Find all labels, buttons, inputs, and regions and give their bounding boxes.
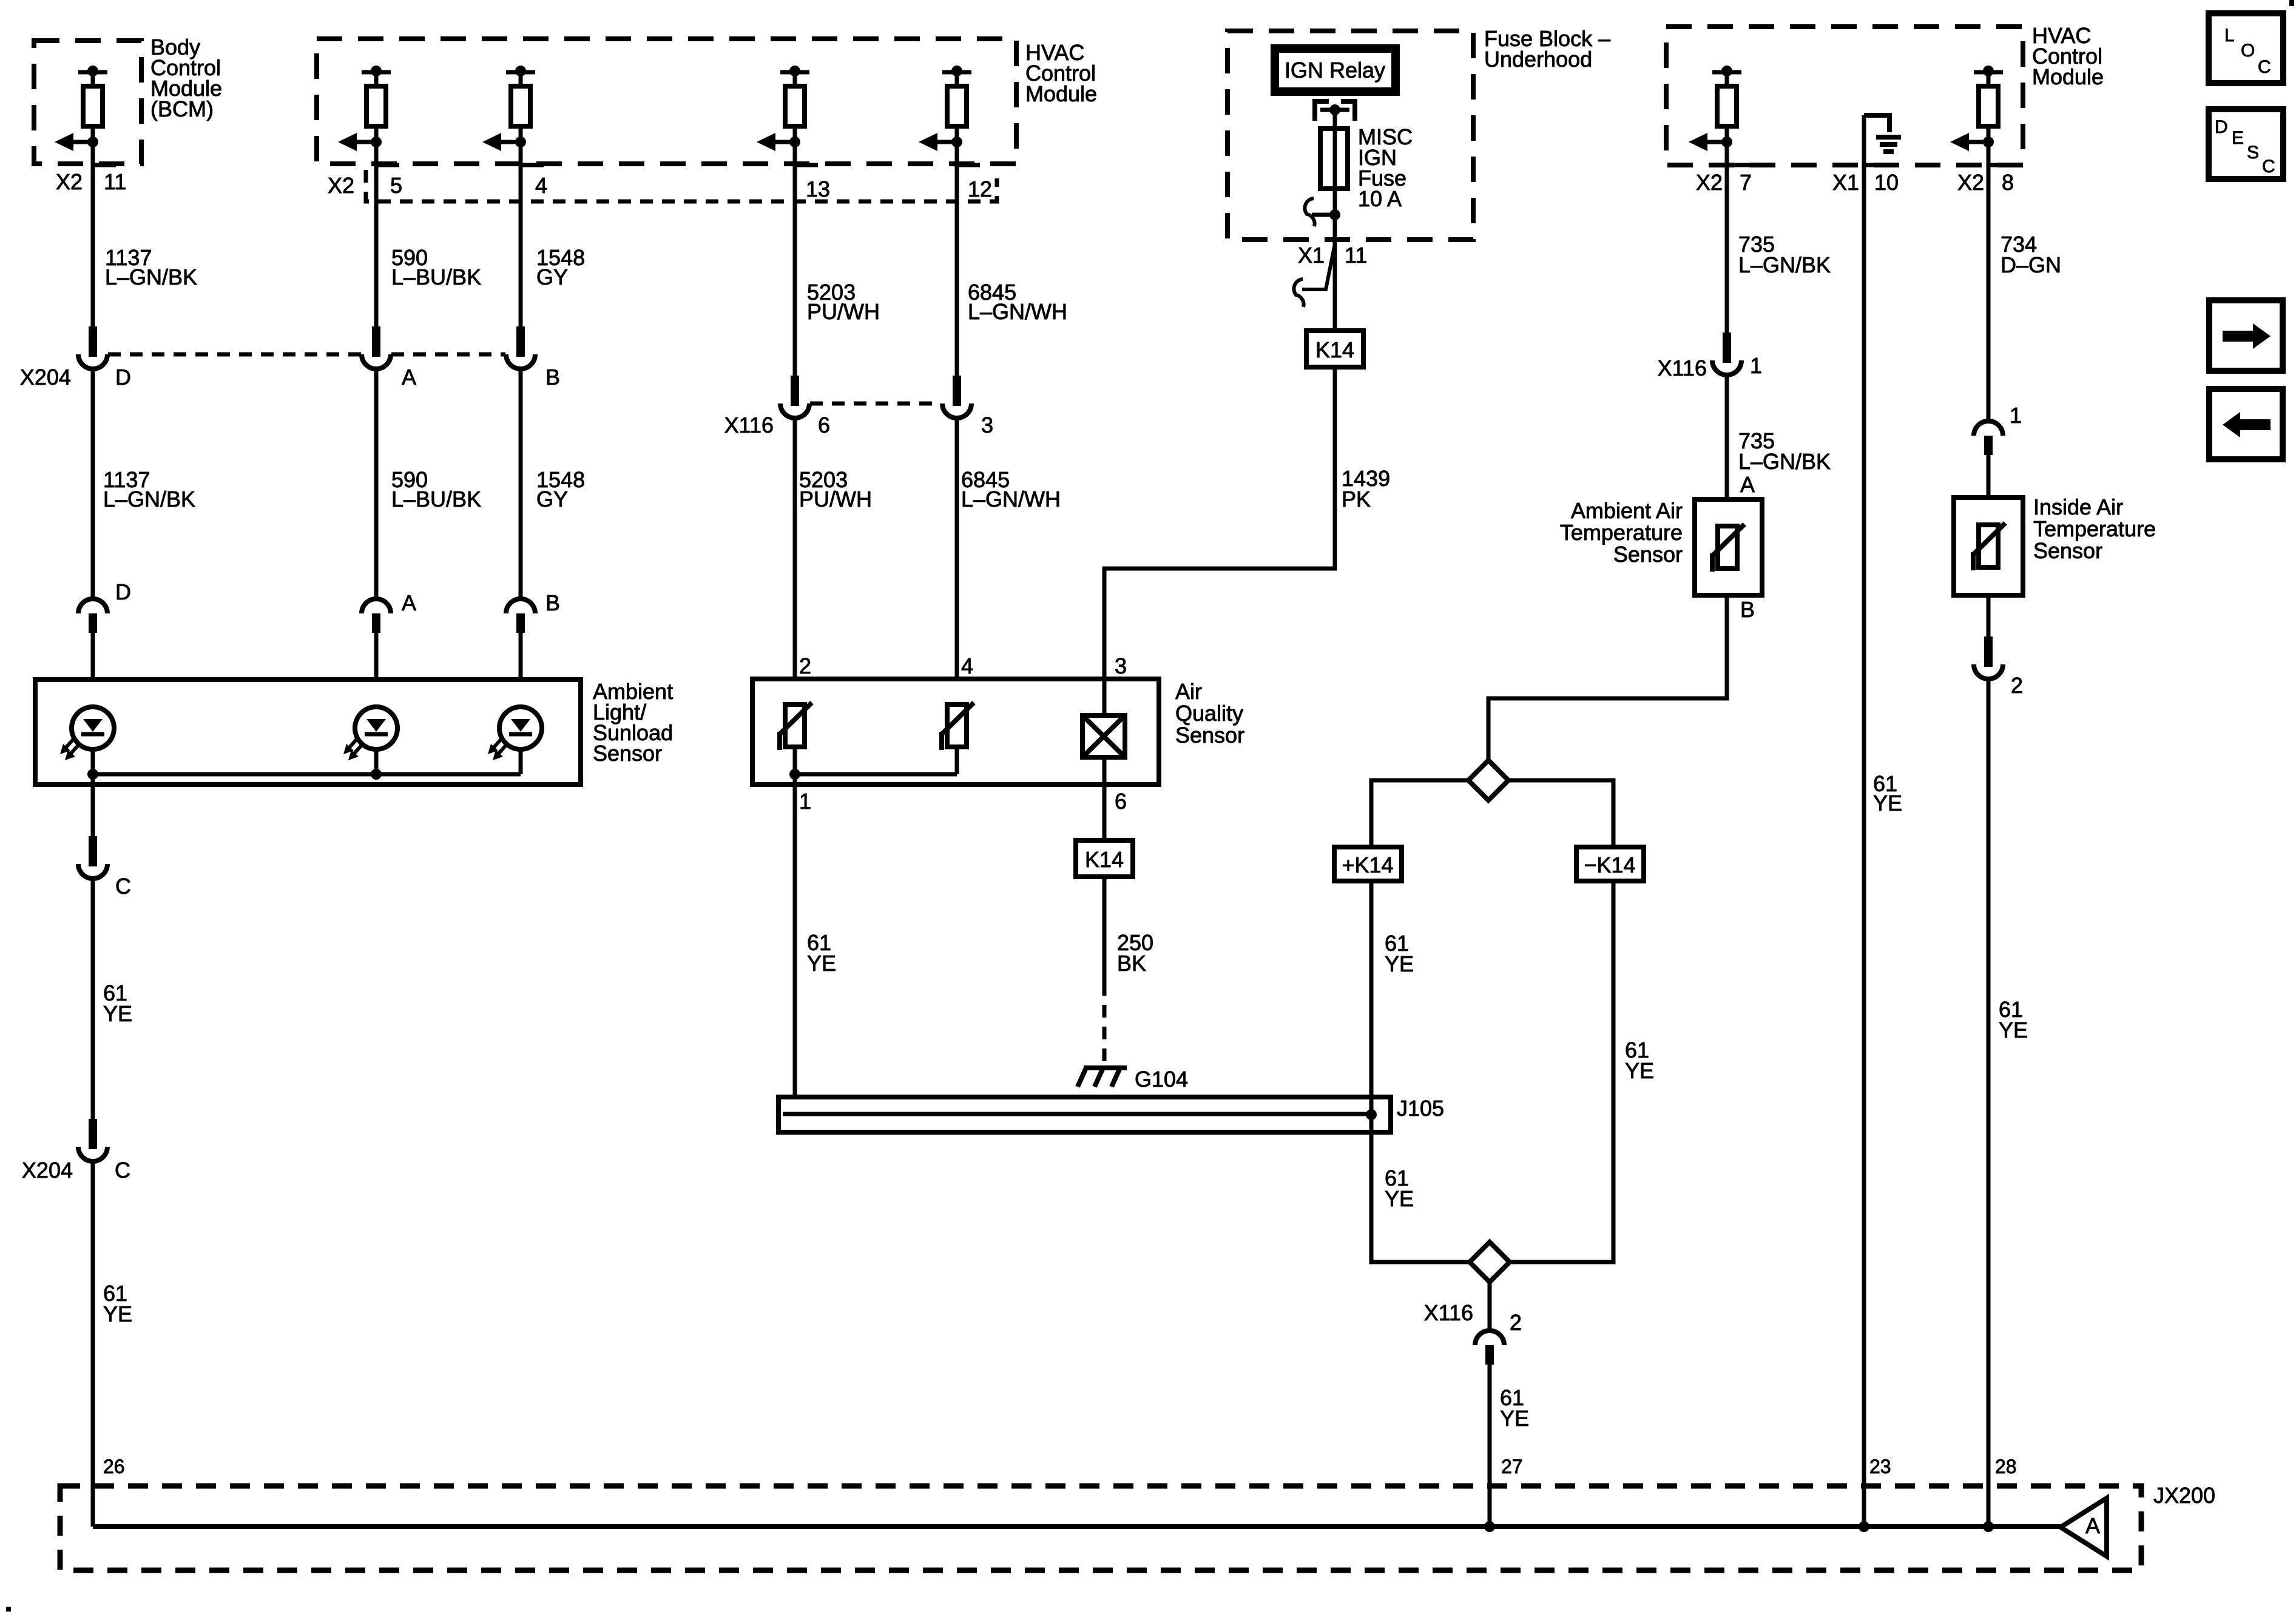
svg-text:Sensor: Sensor [593,741,662,766]
svg-text:YE: YE [1625,1058,1654,1083]
svg-text:YE: YE [1873,791,1902,815]
fuse: MISC IGN Fuse 10A [1320,129,1348,189]
wire: X204-C down to JX200 bus [91,1161,95,1527]
svg-text:4: 4 [535,173,547,198]
thermistor IAT [1973,523,2005,570]
label: wire 735 L-GN/BK (lower) [1738,428,1831,474]
nav box DESC [2209,109,2283,179]
wire: HVAC 13 down to X116-6 [793,142,797,389]
svg-text:23: 23 [1869,1456,1891,1477]
wire: IAT out to pin2 [1987,595,1991,651]
relay output terminal brackets [1315,101,1355,121]
wire: relay to fuse [1333,110,1337,129]
svg-text:(BCM): (BCM) [150,96,214,121]
svg-text:J105: J105 [1397,1096,1444,1121]
wire: BCM X2-11 down to X204-D [91,142,95,340]
svg-text:BK: BK [1117,951,1146,976]
svg-text:K14: K14 [1085,847,1124,872]
connector X116-1 (pin/cup) [1712,333,1741,375]
nav box arrow left [2209,389,2283,459]
svg-text:7: 7 [1740,170,1752,195]
node: bus junction 27 [1484,1521,1495,1532]
svg-text:27: 27 [1501,1456,1523,1477]
wire: sensor common bus [93,772,521,777]
wire: C to X204-C (61 YE) [91,879,95,1133]
wire: HVAC 12 down to X116-3 [955,142,959,389]
svg-text:2: 2 [799,653,811,678]
svg-text:C: C [2262,157,2275,177]
node: junction D-common [87,769,98,780]
net marker A (triangle) [2061,1498,2107,1556]
module box: HVAC Control Module (left) [317,39,1016,164]
relay contact box +K14 [1334,847,1402,881]
wire: 250 BK from K14 [1102,877,1107,983]
svg-text:X116: X116 [1658,356,1707,380]
label: Ambient Air Temperature Sensor [1560,498,1683,567]
resistor: HVAC pin X2-4 [482,66,535,151]
svg-text:28: 28 [1995,1456,2017,1477]
label: HVAC Control Module (right) [2032,23,2104,89]
svg-text:X2: X2 [1957,170,1984,195]
svg-text:L–GN/BK: L–GN/BK [103,487,195,511]
resistor: HVAC pin X2-7 [1689,66,1741,151]
connector X204-C (pin/cup) [78,1119,107,1161]
module box: Fuse Block - Underhood [1227,31,1473,240]
svg-text:11: 11 [1345,243,1367,268]
svg-text:C: C [2258,57,2271,77]
wire: +K14 down through J105 to lower diamond [1371,881,1470,1262]
svg-text:3: 3 [981,413,993,437]
wire: photodiode D to common [91,749,95,774]
wire: X2-8 down to IAT-1 [1987,142,1991,421]
wire: photodiode B to common [519,749,523,774]
label: wire 734 D-GN [2001,232,2061,277]
connector X116-2 (dome/pin) [1475,1331,1504,1365]
thermistor AQ-2 (pin 4) [942,703,974,750]
connector IAT-2 (pin/cup) [1974,636,2003,679]
relay contact box -K14 [1576,847,1644,881]
pin tick X2-8 [1988,163,2011,167]
label: wire 1137 L-GN/BK (upper) [105,245,197,289]
connector X2 outline (dashed) [366,170,997,201]
svg-text:YE: YE [1500,1406,1529,1431]
connector line X204 (dashed) [108,353,505,357]
wire: 250 BK dashed to G104 [1102,983,1107,1065]
wire: IAT-2 61 YE down to bus [1987,679,1991,1527]
junction diamond (upper) [1468,760,1508,800]
label: wire 1137 L-GN/BK (lower) [103,467,195,511]
svg-text:8: 8 [2002,170,2014,195]
svg-text:Sensor: Sensor [1175,723,1244,748]
label: wire 1439 PK [1342,466,1390,511]
node: bus junction 23 [1859,1521,1869,1532]
connector X204-A (pin/cup) [362,326,391,369]
svg-text:K14: K14 [1315,337,1354,362]
svg-text:YE: YE [103,1001,132,1026]
component box: Inside Air Temperature Sensor [1954,498,2023,595]
label: wire 590 L-BU/BK (upper) [391,245,481,289]
label: HVAC Control Module (left) [1025,40,1097,106]
wire: 1439 PK from K14 to AQ pin3 [1104,367,1335,715]
node: fuse output junction [1329,209,1340,220]
svg-text:X116: X116 [1424,1300,1473,1325]
svg-text:D: D [115,365,131,390]
connector sunload D (dome/pin) [78,599,107,633]
label: wire 250 BK [1117,930,1153,976]
svg-text:L–GN/BK: L–GN/BK [105,265,197,289]
wire: -K14 down to lower diamond [1510,881,1613,1262]
node: J105 junction [1366,1109,1377,1120]
svg-text:E: E [2232,128,2244,148]
label: wire 1548 GY (lower) [536,467,585,511]
page mark (bottom left) [6,1607,11,1612]
connector X116-3 (pin/cup) [942,376,971,418]
wire: sensor C out [91,774,95,839]
label: Inside Air Temperature Sensor [2033,495,2156,563]
svg-text:10 A: 10 A [1358,186,1402,211]
connector X116-6 (pin/cup) [780,376,809,418]
svg-text:PK: PK [1342,487,1371,511]
svg-text:1: 1 [2010,403,2022,428]
connector line X116 (dashed) [810,402,941,406]
svg-text:2: 2 [1510,1310,1522,1335]
svg-text:A: A [402,365,416,390]
wire: X204-B to sunload B [519,369,523,600]
wire: AQ therm1 to common [793,747,797,774]
terminal hook (upper) [1305,198,1314,226]
connector C (pin/cup) [78,836,107,879]
svg-text:X204: X204 [20,365,71,390]
svg-text:X1: X1 [1298,243,1325,268]
svg-text:S: S [2247,143,2259,163]
svg-text:4: 4 [961,653,973,678]
svg-text:−K14: −K14 [1584,852,1635,877]
wire: fuse to X1-11 [1333,189,1337,331]
svg-text:A: A [402,590,416,615]
svg-text:X2: X2 [56,169,83,194]
svg-text:10: 10 [1874,170,1899,195]
wire: X204-A to sunload A [374,369,379,600]
svg-text:L: L [2224,25,2235,46]
module box: Body Control Module (BCM) [34,41,141,164]
label: wire 5203 PU/WH (lower) [799,467,872,511]
svg-text:Underhood: Underhood [1484,47,1592,72]
relay coil box K14 (fuse wire) [1306,331,1363,367]
svg-text:+K14: +K14 [1342,852,1393,877]
heater element X-box (pin 3) [1082,715,1125,757]
svg-text:IGN Relay: IGN Relay [1285,58,1385,83]
svg-text:C: C [115,874,131,899]
photodiode D [60,707,114,760]
wire: AQ pin1 61 YE down to J105 [793,774,797,1114]
svg-text:1: 1 [1750,353,1762,378]
label: wire 61 YE (left lower) [103,1281,132,1326]
svg-text:L–GN/BK: L–GN/BK [1738,449,1831,474]
svg-text:B: B [545,365,560,390]
label: MISC IGN Fuse 10 A [1358,124,1413,211]
component box: Ambient Air Temperature Sensor [1695,499,1762,595]
svg-text:3: 3 [1115,653,1127,678]
svg-text:6: 6 [818,413,830,437]
wire: HVAC X2-4 down to X204-B [519,142,523,340]
connector X204-B (pin/cup) [506,326,535,369]
relay: IGN Relay box [1271,44,1400,96]
svg-text:Module: Module [1025,81,1097,106]
svg-text:D: D [2215,117,2228,137]
label: Ambient Light/Sunload Sensor [593,679,673,766]
svg-text:Module: Module [2032,64,2104,89]
svg-text:L–BU/BK: L–BU/BK [391,265,481,289]
connector sunload B (dome/pin) [506,599,535,633]
svg-text:X204: X204 [22,1158,73,1183]
svg-text:GY: GY [536,487,568,511]
svg-text:L–GN/WH: L–GN/WH [961,487,1061,511]
resistor: BCM internal load (pin X2-11) [55,66,107,151]
pin tick 13 [795,163,818,167]
pin tick X2-4 [521,163,544,167]
thermistor AQ-1 (pin 2) [780,703,812,750]
wire: AQ internal common [795,772,957,777]
svg-text:YE: YE [1999,1018,2028,1042]
wire: B pin into sensor [519,633,523,707]
label: wire 61 YE (AQ pin1) [807,930,836,976]
component box: Air Quality Sensor [752,679,1159,785]
wire: A pin into sensor [374,633,379,707]
nav box arrow right [2209,300,2283,371]
terminal hook (lower) [1294,279,1303,307]
svg-text:Sensor: Sensor [2033,538,2102,563]
component box: Ambient Light/Sunload Sensor [35,680,581,785]
label: wire 61 YE (X116-2) [1500,1385,1529,1431]
resistor: HVAC pin 13 [757,66,809,151]
junction diamond (lower) [1470,1242,1510,1282]
label: Air Quality Sensor [1175,679,1244,748]
svg-text:YE: YE [807,951,836,976]
label: wire 61 YE (+K14 upper) [1385,931,1414,976]
wire: X1-10 ground wire 61 YE down to bus [1862,115,1866,1527]
label: wire 5203 PU/WH (upper) [807,280,880,324]
label: Body Control Module (BCM) [150,35,222,121]
svg-text:B: B [545,590,560,615]
nav box LOC [2209,13,2283,83]
svg-text:PU/WH: PU/WH [799,487,872,511]
wire: JX200 ground bus [93,1524,2062,1529]
svg-text:Inside Air: Inside Air [2033,495,2123,519]
relay coil box K14 (AQ heater) [1076,840,1133,877]
wire: X116-2 down to JX200 bus [1488,1365,1492,1527]
page mark (top right) [2289,0,2294,6]
svg-text:Sensor: Sensor [1613,542,1683,567]
wire: photodiode A to common [374,749,379,774]
svg-text:X116: X116 [724,413,774,437]
svg-text:L–GN/BK: L–GN/BK [1738,252,1831,277]
wire: HVAC X2-5 down to X204-A [374,142,379,340]
svg-text:D: D [115,579,131,604]
module box: HVAC Control Module (right) [1666,27,2023,165]
node: junction A-common [371,769,382,780]
wire: diamond1 left to +K14 [1371,780,1468,847]
svg-text:X2: X2 [328,173,354,198]
wire: X2-7 down to X116-1 [1725,142,1729,346]
label: wire 590 L-BU/BK (lower) [391,467,481,511]
pin tick X2-5 [376,163,399,167]
svg-text:Air: Air [1175,679,1202,704]
svg-text:GY: GY [536,265,568,289]
connector IAT-1 (dome/pin) [1974,421,2003,455]
label: wire 1548 GY (upper) [536,245,585,289]
svg-text:G104: G104 [1135,1067,1188,1092]
svg-text:YE: YE [1385,1186,1414,1211]
svg-text:13: 13 [806,177,830,201]
svg-text:6: 6 [1115,789,1127,814]
node: relay output [1329,104,1340,115]
pin tick X2-7 [1727,163,1750,167]
photodiode B [488,707,542,760]
ground G104 [1078,1068,1127,1087]
node: AQ common junction [789,769,800,780]
label: wire 61 YE (IAT) [1999,997,2028,1042]
svg-text:O: O [2241,41,2255,61]
pin tick X2-11 [93,163,116,167]
wire: lower diamond to X116-2 [1488,1282,1492,1332]
svg-text:2: 2 [2011,673,2023,698]
wire: X116-1 to AAT-A [1725,375,1729,499]
label: Fuse Block - Underhood [1484,26,1610,72]
svg-text:B: B [1740,597,1755,622]
svg-text:A: A [1740,472,1755,497]
svg-text:A: A [2085,1513,2100,1538]
svg-text:JX200: JX200 [2153,1483,2215,1508]
svg-text:12: 12 [968,177,992,201]
connector X204-D (pin/cup) [78,326,107,369]
svg-text:C: C [115,1158,130,1183]
connector sunload A (dome/pin) [362,599,391,633]
resistor: HVAC pin X2-5 [338,66,391,151]
wire: IAT-1 into sensor [1987,455,1991,498]
wire: hook bar [1312,213,1335,217]
svg-text:26: 26 [103,1456,125,1477]
label: wire 61 YE (-K14) [1625,1038,1654,1083]
node: bus junction 28 [1983,1521,1994,1532]
wire: X116-6 to AQ pin2 (5203) [793,418,797,705]
svg-text:PU/WH: PU/WH [807,299,880,324]
thermistor AAT [1712,524,1744,572]
svg-text:D–GN: D–GN [2001,252,2061,277]
label: wire 735 L-GN/BK (upper) [1738,232,1831,277]
svg-text:1: 1 [799,789,811,814]
svg-text:Temperature: Temperature [1560,520,1683,545]
label: wire 6845 L-GN/WH (lower) [961,467,1061,511]
svg-text:L–GN/WH: L–GN/WH [968,299,1067,324]
svg-text:X2: X2 [1696,170,1723,195]
wire: D pin into sensor [91,633,95,707]
svg-text:5: 5 [390,173,402,198]
pin tick 12 [957,163,980,167]
label: wire 61 YE (+K14 lower) [1385,1166,1414,1211]
photodiode A [343,707,397,760]
svg-text:11: 11 [104,169,126,194]
svg-text:Temperature: Temperature [2033,516,2156,541]
wire: AQ pin6 to K14 [1102,757,1107,840]
wire: diamond1 right to -K14 [1508,780,1613,847]
svg-text:Quality: Quality [1175,701,1243,726]
label: wire 61 YE (ground wire) [1873,771,1902,815]
wire: X116-3 to AQ pin4 (6845) [955,418,959,705]
svg-text:L–BU/BK: L–BU/BK [391,487,481,511]
svg-text:YE: YE [1385,951,1414,976]
wire: AQ therm2 to common [955,747,959,774]
connector blade X1-11 [1302,241,1335,289]
label: wire 61 YE (left upper) [103,981,132,1026]
internal ground X1-10 [1864,115,1901,152]
splice pack J105 [778,1097,1391,1132]
resistor: HVAC pin 12 [919,66,971,151]
wire: AAT-B to diamond1 [1488,595,1727,760]
resistor: HVAC pin X2-8 [1950,66,2003,151]
svg-text:YE: YE [103,1301,132,1326]
harness box JX200 (dashed) [60,1486,2141,1570]
pin tick X1-10 [1864,163,1887,167]
svg-text:X1: X1 [1832,170,1859,195]
label: wire 6845 L-GN/WH (upper) [968,280,1067,324]
svg-text:Ambient Air: Ambient Air [1571,498,1683,523]
wire: X204-D to sunload D [91,369,95,600]
